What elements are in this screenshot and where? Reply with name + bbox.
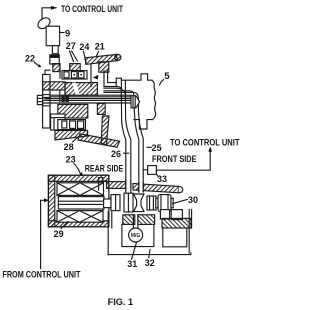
rack rail left hatched segment xyxy=(107,182,126,189)
sensor box 33 xyxy=(148,166,157,175)
M/G box xyxy=(122,224,154,246)
base hatched strip mid xyxy=(138,215,155,225)
motor bottom coil xyxy=(57,211,103,223)
svg-text:24: 24 xyxy=(79,42,89,52)
shaft end knob lines xyxy=(37,98,42,101)
shaft center rod xyxy=(45,99,131,103)
left end plate 22 outline xyxy=(43,75,50,129)
shaft pointed cap xyxy=(131,96,140,108)
upper conduit lines to pipes xyxy=(104,87,125,97)
svg-text:REAR SIDE: REAR SIDE xyxy=(85,163,124,173)
piston column walls xyxy=(60,64,70,78)
spline dark bar 1 xyxy=(62,95,65,102)
svg-text:FRONT SIDE: FRONT SIDE xyxy=(152,154,197,164)
second conduit lines xyxy=(104,91,139,112)
svg-text:M/G: M/G xyxy=(131,233,141,239)
arrow into motor xyxy=(44,198,49,202)
lower-left plate foot xyxy=(51,114,65,130)
upper bearing row box xyxy=(62,71,87,79)
lower hatched mass xyxy=(58,104,88,118)
label 22 leader arrow xyxy=(35,63,40,66)
pipe 26 crossing rail xyxy=(126,181,130,194)
svg-text:TO CONTROL UNIT: TO CONTROL UNIT xyxy=(61,3,123,14)
svg-text:27: 27 xyxy=(66,41,76,51)
housing 5 bottom notch xyxy=(134,120,152,129)
label 32 leader xyxy=(149,250,150,258)
central upper hatched mass xyxy=(65,83,97,96)
shaft end knob poking left xyxy=(37,95,42,104)
top-left hatched band left part xyxy=(53,64,60,72)
mounting block under solenoid xyxy=(50,55,59,64)
svg-text:5: 5 xyxy=(164,71,170,82)
top-left hatched band right part xyxy=(70,64,80,72)
roller 30 xyxy=(158,195,171,212)
svg-text:9: 9 xyxy=(65,28,70,39)
stub pipe to box 33 xyxy=(143,169,147,171)
small arrow blob near bearing xyxy=(93,75,99,80)
rack rail right hatched segment xyxy=(133,183,179,192)
label 33 tick xyxy=(157,175,159,177)
label 21 leader xyxy=(97,52,99,57)
arrow to top control unit xyxy=(51,6,58,10)
spool E lines xyxy=(150,196,154,210)
rail rounded right end xyxy=(179,186,183,192)
motor housing hatched bottom wall xyxy=(48,221,108,227)
solenoid 9 foot tube xyxy=(52,46,58,54)
motor right end bell xyxy=(103,181,109,220)
solenoid 9 body xyxy=(46,26,59,46)
small block under roller xyxy=(160,210,169,219)
gearbox right wall xyxy=(189,209,191,252)
housing 5 wavy right edge xyxy=(152,80,156,119)
hub vertical lines xyxy=(60,90,65,102)
label 24 leader xyxy=(84,52,87,63)
roller inner lines xyxy=(161,195,168,212)
hatched band across left plate xyxy=(43,82,65,90)
svg-text:31: 31 xyxy=(127,259,137,269)
right hatched block under pocket xyxy=(97,103,105,114)
right sub box xyxy=(163,228,187,247)
armature lines xyxy=(58,201,104,204)
main shaft tube xyxy=(50,95,131,97)
wall line left of pocket xyxy=(90,65,92,87)
small block 2 under roller xyxy=(171,210,182,220)
svg-text:FROM CONTROL UNIT: FROM CONTROL UNIT xyxy=(2,269,80,279)
pipe 26 upper verticals xyxy=(121,78,125,96)
svg-text:33: 33 xyxy=(157,174,167,184)
wire to top control unit xyxy=(42,8,51,19)
gear block C xyxy=(124,193,133,212)
top plate hook end xyxy=(115,54,121,60)
spool gear D xyxy=(134,194,144,212)
svg-text:25: 25 xyxy=(152,143,162,153)
label 31 leader xyxy=(132,243,137,260)
spline dark bar 2 xyxy=(66,95,69,102)
bearing squares xyxy=(64,72,69,78)
plate foot line xyxy=(51,118,65,130)
label 28 leader xyxy=(73,136,80,142)
bottom skirt tilted extension xyxy=(78,134,120,147)
gear block B line xyxy=(115,195,117,211)
label 25 leader xyxy=(147,146,151,148)
gear block B xyxy=(111,195,120,211)
motor housing hatched top wall xyxy=(48,175,108,181)
motor 29 outer housing xyxy=(48,175,108,227)
gearbox left wall xyxy=(108,212,112,255)
label 26 leader xyxy=(124,152,129,154)
wire from control unit to motor xyxy=(41,200,44,268)
label 27 leader xyxy=(70,51,78,62)
svg-text:22: 22 xyxy=(25,53,35,63)
M/G circle xyxy=(129,228,143,242)
svg-text:32: 32 xyxy=(145,258,155,268)
svg-text:26: 26 xyxy=(111,149,121,159)
wire from box 33 to control unit xyxy=(156,152,210,170)
base hatched strip left xyxy=(123,215,135,225)
roller side flanges xyxy=(156,198,158,208)
label 23 leader xyxy=(74,164,81,176)
left plate shaft lines xyxy=(43,95,50,106)
gear block A xyxy=(104,199,111,208)
lower bearing squares xyxy=(62,121,67,128)
M/G shaft gap xyxy=(133,215,138,228)
mounting block dark top xyxy=(50,55,59,58)
solenoid 9 cap xyxy=(36,16,52,31)
hatched column going down xyxy=(101,116,109,145)
top coil cross lines xyxy=(57,183,104,196)
motor housing hatched left wall xyxy=(48,175,54,227)
pocket inner step xyxy=(108,71,117,83)
label 23 arrowhead at motor top xyxy=(80,172,83,176)
label 9 leader xyxy=(60,32,64,34)
pipe 25 crossing rail xyxy=(139,183,142,193)
label 29 leader xyxy=(61,222,68,229)
label 30 leader xyxy=(173,199,188,203)
motor shaft coupling disk xyxy=(111,197,115,208)
base hatched strip right xyxy=(162,218,191,228)
motor shaft small coupling xyxy=(115,200,119,206)
svg-text:TO CONTROL UNIT: TO CONTROL UNIT xyxy=(170,137,240,147)
left plate top step xyxy=(45,70,50,74)
block under top plate xyxy=(99,62,109,72)
small spool E xyxy=(147,196,156,210)
bottom coil cross lines xyxy=(57,211,103,223)
cap inner lines xyxy=(133,96,135,108)
top plate 21 hatched bar xyxy=(85,54,117,64)
svg-text:FIG. 1: FIG. 1 xyxy=(108,296,134,307)
svg-text:29: 29 xyxy=(54,229,64,239)
lower bearing row box xyxy=(58,120,86,130)
bottom skirt hatched xyxy=(55,130,88,140)
svg-text:21: 21 xyxy=(95,42,105,52)
pipe 26 xyxy=(121,96,130,189)
label 5 leader xyxy=(160,80,164,85)
pipe 25 xyxy=(134,110,143,192)
valve pocket outline xyxy=(104,71,121,87)
rack bracket left steps xyxy=(99,178,107,190)
motor armature xyxy=(58,197,104,209)
svg-text:30: 30 xyxy=(188,195,198,205)
arrow up to control unit xyxy=(208,146,212,152)
motor shaft exit lines xyxy=(104,201,113,205)
gearbox bottom line xyxy=(108,253,191,255)
bearing dots xyxy=(73,74,75,76)
svg-text:28: 28 xyxy=(64,142,74,152)
white wedge in mass xyxy=(72,83,80,96)
housing 5 top line xyxy=(121,74,152,80)
motor top coil xyxy=(57,183,104,196)
